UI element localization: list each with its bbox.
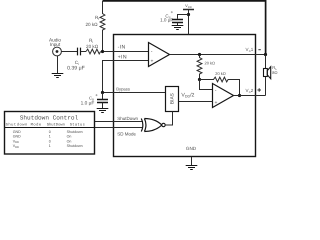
svg-text:+: +: [95, 93, 98, 98]
svg-text:1: 1: [49, 135, 51, 139]
capacitor Cs: [172, 20, 183, 23]
ground (IC): [186, 166, 198, 170]
wire gate output to BIAS: [165, 112, 172, 126]
svg-text:SD Mode: SD Mode: [117, 131, 136, 136]
svg-text:Shutdown: Shutdown: [67, 130, 83, 134]
svg-text:+IN: +IN: [118, 54, 127, 60]
svg-text:Bypass: Bypass: [116, 86, 130, 91]
wire Ci to Ri: [81, 51, 86, 53]
wire jack to Ci: [61, 51, 77, 53]
svg-text:0: 0: [49, 139, 51, 143]
svg-text:Shutdown Mode: Shutdown Mode: [6, 122, 42, 127]
XNOR gate: [141, 119, 143, 132]
svg-text:BIAS: BIAS: [170, 93, 176, 104]
svg-text:20 kΩ: 20 kΩ: [205, 61, 216, 66]
wire node A down to amp2 -IN: [200, 80, 213, 90]
node A junction: [198, 78, 201, 81]
svg-text:1: 1: [49, 144, 51, 148]
svg-text:+: +: [215, 100, 218, 106]
node bypass junction: [101, 91, 104, 94]
svg-text:VDD/2: VDD/2: [181, 93, 194, 99]
svg-text:ShutDown: ShutDown: [117, 116, 138, 121]
svg-text:20 kΩ: 20 kΩ: [86, 44, 99, 49]
op-amp U2: [213, 84, 234, 108]
ground (Cs): [172, 26, 184, 30]
speaker RL: [264, 69, 268, 77]
wire GND pin: [191, 157, 193, 166]
wire shutdown (table to gate): [95, 121, 144, 123]
svg-text:-IN: -IN: [118, 44, 126, 50]
svg-text:20 kΩ: 20 kΩ: [85, 22, 98, 27]
table header underline: [5, 127, 95, 129]
svg-text:20 kΩ: 20 kΩ: [215, 71, 226, 76]
capacitor Ci: [78, 48, 81, 56]
minus sign Vo1: [258, 49, 260, 51]
resistor Rf: [100, 1, 105, 52]
svg-text:Shutdown: Shutdown: [67, 144, 83, 148]
svg-text:GND: GND: [13, 135, 21, 139]
svg-text:0.39 μF: 0.39 μF: [67, 65, 85, 71]
plus sign Vo2: [257, 88, 261, 92]
node speaker top junction: [264, 53, 267, 56]
op-amp U1: [149, 43, 170, 67]
svg-text:On: On: [67, 135, 72, 139]
svg-text:0: 0: [49, 130, 51, 134]
BIAS block: [166, 87, 179, 112]
wire amp2 output to Vo2: [234, 95, 266, 97]
svg-text:Input: Input: [50, 42, 61, 47]
ground (audio input): [57, 56, 59, 74]
svg-text:On: On: [67, 139, 72, 143]
node amp1 output junction: [198, 53, 201, 56]
svg-text:-: -: [215, 88, 217, 94]
svg-text:Vo2: Vo2: [246, 88, 254, 94]
wire bypass: [103, 92, 166, 94]
ground (CB): [97, 109, 109, 113]
audio input jack: [53, 47, 62, 56]
wire feedback top: [103, 1, 266, 55]
resistor 20k (vertical, internal): [197, 55, 202, 80]
wire speaker branch: [265, 55, 267, 96]
svg-text:VDD: VDD: [185, 3, 192, 9]
svg-text:Status: Status: [70, 122, 85, 127]
table rows: [13, 130, 83, 149]
wire Ri to -IN: [101, 51, 148, 53]
wire BIAS to amp2 +IN: [179, 101, 213, 103]
shutdown control table: [5, 112, 95, 155]
svg-text:ShutDown: ShutDown: [47, 122, 65, 127]
svg-text:+: +: [171, 9, 174, 14]
wire +IN: [103, 61, 149, 93]
svg-text:-: -: [151, 49, 153, 55]
svg-text:GND: GND: [13, 130, 21, 134]
wire SD mode (table to gate): [95, 127, 144, 129]
node Vdd junction: [187, 13, 190, 16]
svg-text:Rf: Rf: [95, 15, 99, 21]
svg-text:8Ω: 8Ω: [272, 70, 277, 75]
capacitor CB: [102, 93, 104, 100]
resistor 20k (horizontal, feedback): [200, 77, 240, 95]
resistor Ri: [86, 49, 101, 54]
svg-text:1.0 μF: 1.0 μF: [81, 101, 95, 107]
wire Vdd to Cs: [178, 15, 189, 19]
svg-text:CB: CB: [89, 96, 94, 102]
wire Vdd to box: [188, 10, 190, 35]
node amp2 output junction: [238, 94, 241, 97]
svg-text:Vo1: Vo1: [246, 47, 254, 53]
wire amp1 output to Vo1: [170, 54, 266, 56]
svg-text:+: +: [151, 59, 154, 65]
node -IN junction: [101, 50, 104, 53]
svg-text:1.0 μF: 1.0 μF: [160, 18, 173, 23]
IC box: [114, 35, 256, 157]
svg-text:GND: GND: [186, 146, 197, 151]
svg-text:Shutdown Control: Shutdown Control: [20, 114, 79, 121]
